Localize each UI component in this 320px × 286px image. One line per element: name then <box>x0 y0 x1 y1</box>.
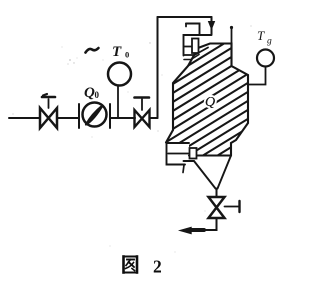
bottom outlet box on vessel <box>167 143 197 173</box>
vessel Q hatched body <box>150 3 290 242</box>
label Tg <box>257 28 272 47</box>
thermometer T0 bulb <box>108 63 131 86</box>
flow meter Q0 needle <box>86 106 103 125</box>
scribble mark above Q0 <box>86 48 99 53</box>
valve V1 (inlet gate valve) <box>40 94 57 128</box>
wire: pipe from valve V2 to riser <box>150 117 158 119</box>
wire: riser pipe <box>157 17 159 118</box>
wire: drop pipe into vessel with flow arrow <box>211 17 213 35</box>
scan noise speckles <box>12 25 251 252</box>
wire: drain pipe from funnel <box>216 189 218 198</box>
svg-text:g: g <box>267 37 272 47</box>
funnel cone at vessel bottom <box>184 161 216 189</box>
valve V3 (drain valve, vertical) <box>209 197 240 218</box>
outlet flow arrow <box>188 228 204 232</box>
svg-text:Q: Q <box>205 95 215 110</box>
vent stub on vessel top <box>231 28 233 44</box>
wire: drain outlet pipe <box>201 218 217 230</box>
svg-text:T: T <box>112 44 122 60</box>
wire: top horizontal pipe run <box>158 16 212 18</box>
svg-text:0: 0 <box>95 90 100 100</box>
flow meter Q0 body <box>83 103 107 127</box>
top inlet box on vessel <box>184 24 212 60</box>
wire: pipe between valve V1 and flow meter <box>57 117 79 119</box>
svg-text:0: 0 <box>125 50 129 60</box>
wire: pipe between flow meter and valve V2 <box>110 117 135 119</box>
caption numeral 2 <box>153 257 162 277</box>
svg-text:Q: Q <box>84 85 95 101</box>
label Q0 <box>84 85 100 101</box>
flow meter Q0 flange ticks <box>78 104 80 128</box>
vessel Q outline <box>173 44 248 156</box>
wire: Tg connection line <box>248 67 266 85</box>
svg-text:T: T <box>257 28 265 43</box>
label Q inside vessel <box>205 95 215 110</box>
wire: main inlet pipe left segment <box>9 117 40 119</box>
valve V2 <box>135 98 150 128</box>
thermometer Tg bulb <box>257 50 274 67</box>
caption character 图 (drawn as strokes) <box>124 257 138 273</box>
wire: thermometer T0 drop line <box>117 86 119 118</box>
label T0 <box>112 44 129 60</box>
svg-text:2: 2 <box>153 257 162 277</box>
